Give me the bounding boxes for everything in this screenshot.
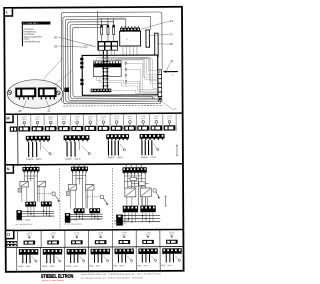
M col 2 header: [35, 117, 40, 121]
N sub 1 drop wires: [24, 173, 37, 202]
board left pin 3: [80, 66, 83, 69]
svg-text:1/N/PE ~ 230 V: 1/N/PE ~ 230 V: [26, 159, 42, 161]
O top divider 3: [64, 230, 66, 247]
O col 7 terminal block: [166, 240, 178, 244]
screw right: [56, 91, 60, 95]
component S2 (slim bar): [155, 33, 159, 56]
M group 4 clamp leader: [154, 144, 159, 151]
svg-text:Kabeleinführung: Kabeleinführung: [24, 40, 41, 43]
board terminal strip X1: [91, 89, 112, 93]
wire U1-to-board 4: [132, 46, 134, 55]
M group 1 comb: [26, 136, 50, 142]
N sub 2 output block 2: [89, 208, 100, 213]
M column divider 9: [135, 113, 137, 131]
O col 6 header: [145, 232, 151, 236]
detail ellipse: [7, 80, 62, 109]
O col 1 header: [27, 233, 33, 237]
N sub 3 mains connector: [116, 215, 123, 226]
wire U1-to-board 1: [122, 46, 124, 55]
O top divider 1: [16, 230, 18, 247]
signal wire 9: [97, 76, 158, 90]
enclosure dashed boundary: [63, 104, 163, 107]
svg-text:26: 26: [54, 35, 58, 39]
O col 4 wires: [95, 254, 102, 263]
M col 2 load symbol: [36, 121, 39, 126]
arrow at SE33: [90, 45, 95, 46]
M column divider 3: [56, 114, 58, 132]
O bottom divider 1: [16, 248, 18, 271]
N sub 1 contactor K1: [20, 181, 28, 187]
wire bus heavy 1: [102, 51, 104, 89]
O col 6 clamp leader: [151, 256, 156, 262]
inner module teeth: [95, 61, 119, 63]
N separator dashed 1: [59, 168, 61, 230]
element supply bus: [98, 17, 126, 19]
O col 3 wires: [71, 254, 78, 263]
M col 7 terminal block: [98, 126, 110, 131]
signal wire 1: [97, 57, 158, 71]
section label M: [5, 114, 13, 122]
svg-text:3/N/PE ~ 415 V: 3/N/PE ~ 415 V: [141, 157, 157, 159]
O col 7 load symbol: [171, 235, 173, 237]
M group 3 clamp leader: [120, 144, 125, 151]
N sub 2 indicator H1: [66, 192, 70, 196]
signal wire 3: [103, 59, 159, 79]
svg-text:2/PE ~ 220 V: 2/PE ~ 220 V: [89, 266, 101, 268]
M column divider 7: [109, 114, 111, 132]
O col 7 header: [169, 232, 175, 236]
detail terminal pins: [19, 97, 55, 100]
N sub 2 block-to-bus wires: [76, 213, 98, 219]
svg-text:1/N/PE ~ 240 V: 1/N/PE ~ 240 V: [65, 159, 81, 161]
control unit U1 body: [120, 31, 141, 46]
N sub 3 drop wires: [124, 173, 149, 206]
wire loop 5: [73, 25, 153, 100]
heating element E3: [112, 18, 115, 41]
svg-text:28: 28: [170, 42, 174, 46]
leader 28: [159, 43, 170, 46]
N sub 2 drop wires: [73, 173, 86, 209]
O middle divider: [6, 247, 184, 248]
M column divider 2: [43, 114, 45, 132]
O top divider 6: [135, 230, 137, 247]
O col 3 load symbol: [76, 236, 78, 238]
signal wire 11: [109, 58, 159, 82]
wire drop to relay block: [97, 11, 99, 41]
N sub 3 adjuster: [153, 189, 160, 199]
svg-text:mit Vorrangschaltung: mit Vorrangschaltung: [64, 223, 82, 226]
M col 6 terminal block: [85, 126, 97, 131]
N sub 2 supply buses: [65, 214, 103, 219]
M column divider 8: [122, 114, 124, 132]
M col 11 header: [154, 116, 159, 120]
N sub 2 contactor output wires: [70, 190, 92, 208]
M col 9 terminal block: [124, 126, 136, 131]
svg-text:O: O: [7, 232, 10, 237]
M col 5 terminal block: [71, 126, 83, 131]
svg-text:21: 21: [47, 108, 51, 112]
M col 5 header: [75, 116, 80, 120]
wire relay-to-board 4: [110, 50, 112, 55]
N sub 3 contactor K1: [125, 188, 136, 197]
M group 2 wires: [67, 142, 75, 157]
O col 5 connector bar: [114, 249, 133, 255]
svg-text:intern: intern: [24, 38, 30, 41]
M col 0 terminal block: [10, 126, 17, 131]
section label L: [4, 8, 12, 16]
M col 4 terminal block: [58, 126, 70, 131]
M col 10 header: [141, 116, 146, 120]
O col 3 clamp leader: [80, 256, 85, 262]
controller board outline: [82, 55, 158, 95]
svg-text:26: 26: [18, 109, 22, 113]
O col 1 terminal block: [24, 241, 36, 245]
board left pin 5: [80, 83, 83, 86]
inner module header bar: [94, 63, 122, 67]
N sub 1 supply comb: [22, 167, 39, 173]
M group 4 wires: [142, 140, 152, 155]
O top divider 4: [88, 230, 90, 247]
bus ladder ticks: [102, 58, 109, 86]
wire relay-to-board 1: [99, 51, 101, 56]
O col 3 connector bar: [67, 249, 86, 255]
O col 3 header: [74, 232, 80, 236]
N sub 1 mains connector: [16, 210, 21, 220]
N sub 1 mechanical link: [37, 193, 52, 195]
signal wire 13: [126, 69, 158, 99]
O col 1 clamp leader: [32, 257, 37, 263]
O col 5 terminal block: [119, 240, 131, 244]
N sub 3 output block 2: [140, 206, 155, 213]
N sub 2 mains connector: [65, 213, 70, 223]
board left pin 1: [80, 58, 83, 61]
M group 4 comb: [140, 134, 165, 140]
N sub 3 junction dots: [124, 215, 150, 223]
O top divider 7: [159, 230, 161, 247]
M column divider 11: [162, 113, 164, 131]
svg-text:N: N: [7, 166, 10, 171]
N sub 2 output block 1: [74, 208, 85, 213]
M group 3 wires: [108, 140, 118, 155]
N sub 3 output block 1: [123, 206, 138, 213]
svg-text:3/PE ~ 220 V: 3/PE ~ 220 V: [161, 265, 173, 267]
N sub 2 contactor K2: [86, 184, 94, 190]
M group 2 clamp leader: [81, 145, 90, 154]
M band left rail: [17, 114, 19, 166]
terminal strip X10: [158, 70, 162, 101]
cable clamp on loom: [64, 88, 69, 92]
O legend bar 1: [6, 241, 16, 243]
O col 1 wires: [23, 255, 30, 264]
M col 3 load symbol: [49, 121, 52, 126]
page frame: [4, 7, 183, 272]
O col 4 load symbol: [99, 236, 101, 238]
M group 1 extra wire: [40, 142, 42, 151]
M group 2 extra wire: [78, 141, 80, 150]
O bottom divider 5: [111, 247, 113, 270]
M col 5 load symbol: [76, 121, 79, 126]
O col 4 clamp leader: [104, 256, 109, 262]
M col 10 terminal block: [137, 125, 149, 130]
O bottom divider 7: [159, 247, 161, 270]
section label O: [6, 230, 14, 238]
N sub 3 supply buses: [116, 215, 160, 221]
svg-text:21: 21: [170, 19, 174, 23]
N sub 1 supply buses: [16, 211, 54, 216]
M group 1 wires: [29, 142, 37, 157]
signal wire 4: [112, 58, 159, 84]
wire relay-to-board 2: [103, 51, 105, 56]
svg-text:Durchfluss: Durchfluss: [24, 33, 36, 36]
O col 3 terminal block: [71, 240, 83, 244]
O col 2 clamp leader: [56, 256, 61, 262]
detail view line upper: [43, 58, 64, 80]
N sub 1 output block 2: [41, 202, 52, 207]
inner module M1: [94, 61, 122, 77]
leader 27: [150, 34, 170, 35]
M col 11 terminal block: [151, 125, 163, 130]
section divider M: [5, 113, 183, 114]
O col 5 wires: [118, 254, 125, 263]
section label N: [5, 165, 13, 173]
M col 3 terminal block: [45, 126, 57, 131]
leader 29: [167, 63, 170, 70]
svg-text:STIEBEL ELTRON: STIEBEL ELTRON: [41, 274, 74, 280]
O col 6 terminal block: [142, 240, 154, 244]
connector X2 comb: [120, 26, 140, 31]
svg-text:1/N/PE ~ 230 V: 1/N/PE ~ 230 V: [42, 266, 56, 268]
pin P4: [125, 80, 127, 82]
N sub 1 output block 1: [25, 202, 36, 207]
N sub 1 contactor output wires: [22, 187, 44, 202]
leader line 26 upper: [58, 37, 91, 46]
detail view line lower: [55, 70, 73, 84]
pin P2: [125, 68, 127, 70]
O col 7 clamp leader: [175, 256, 180, 262]
M group 1 clamp leader: [42, 146, 51, 155]
pin column line: [125, 60, 127, 86]
signal wire 7: [126, 81, 158, 97]
leader to label 30: [162, 102, 174, 110]
N sub 2 junction dots: [76, 214, 99, 220]
N sub 1 junction dots: [27, 211, 50, 217]
M col 7 header: [101, 116, 106, 120]
svg-text:3/N/PE ~ 400 V: 3/N/PE ~ 400 V: [64, 219, 79, 221]
svg-text:1/N/PE ~ 240 V: 1/N/PE ~ 240 V: [65, 266, 79, 268]
N sub 3 contactor K2: [140, 188, 151, 197]
O col 7 wires: [166, 254, 173, 263]
M column divider 12: [175, 113, 177, 131]
board left pin 2: [80, 62, 83, 65]
M col 6 header: [88, 116, 93, 120]
O col 5 clamp leader: [127, 256, 132, 262]
M col 8 header: [114, 116, 119, 120]
screw left: [8, 90, 12, 94]
M col 12 terminal block: [164, 125, 176, 130]
O col 5 load symbol: [123, 236, 125, 238]
O bottom divider 2: [40, 247, 42, 270]
wire bus heavy 2: [106, 51, 108, 89]
M col 10 load symbol: [142, 121, 145, 126]
N sub 2 feed stubs: [74, 164, 84, 166]
wire relay-to-board 5: [114, 50, 116, 55]
wire U1-to-board 2: [125, 46, 127, 55]
svg-text:3/N/PE ~ 400 V: 3/N/PE ~ 400 V: [108, 157, 124, 159]
M col 2 terminal block: [32, 126, 44, 131]
N scale mark: [164, 196, 166, 206]
N sub 2 adjuster: [100, 195, 108, 205]
O col 6 connector bar: [138, 248, 157, 254]
signal wire 8: [111, 90, 158, 93]
svg-text:mit Lastabwurfrelais: mit Lastabwurfrelais: [16, 223, 33, 226]
component S1 (slim bar): [146, 30, 150, 47]
section divider N: [5, 164, 183, 165]
N sub 1 adjuster: [52, 192, 60, 202]
O col 2 terminal block: [47, 240, 59, 244]
M group 2 comb: [64, 135, 90, 141]
O col 1 load symbol: [28, 236, 30, 238]
M col 9 load symbol: [129, 121, 132, 126]
signal wire 2: [100, 58, 159, 75]
heating element E1: [100, 18, 103, 41]
N sub 1 contactor K2: [37, 181, 45, 187]
N sub 2 supply comb: [71, 167, 88, 173]
leader line 26 lower: [58, 46, 87, 48]
relay contact block K1: [97, 41, 118, 51]
O col 2 header: [50, 233, 56, 237]
M scale mark: [176, 145, 178, 155]
O bottom divider 6: [135, 247, 137, 270]
svg-text:1/N/PE ~ 220 V: 1/N/PE ~ 220 V: [18, 266, 32, 268]
detail leader 26: [22, 101, 26, 110]
O bottom divider 4: [87, 247, 89, 270]
signal wire 6: [126, 63, 158, 92]
leader 21: [140, 21, 169, 29]
signal wire 5: [118, 59, 159, 89]
wire loop 1: [63, 16, 161, 104]
M col 8 load symbol: [115, 121, 118, 126]
N sub 3 block-to-bus wires: [125, 212, 153, 222]
detail terminal block left: [15, 88, 36, 98]
detail leader 21: [46, 101, 49, 109]
M col 7 load symbol: [102, 121, 105, 126]
N sub 3 supply comb: [122, 167, 146, 174]
N sub 2 mechanical link: [86, 196, 101, 198]
N sub 1 indicator H1: [18, 188, 22, 192]
O col 2 connector bar: [43, 249, 62, 255]
M column divider 4: [69, 114, 71, 132]
signal wire 10: [100, 76, 158, 91]
wire U1-to-board 3: [129, 46, 131, 55]
M col 11 load symbol: [155, 121, 158, 126]
svg-text:www.stiebel-eltron.de · info@s: www.stiebel-eltron.de · info@stiebel-elt…: [81, 272, 161, 275]
N sub 1 block-to-bus wires: [28, 206, 50, 216]
O col 4 terminal block: [95, 240, 107, 244]
O bottom divider 3: [63, 247, 65, 270]
M column divider 1: [30, 114, 32, 132]
svg-text:26: 26: [54, 44, 58, 48]
wire loop 3: [68, 21, 157, 100]
O col 7 connector bar: [162, 248, 181, 254]
wire loop 4: [70, 24, 155, 100]
O legend bar 2: [6, 244, 16, 246]
O col 5 header: [122, 232, 128, 236]
board left pin 4: [80, 79, 83, 82]
arrow to terminal (29): [163, 70, 178, 72]
O col 2 load symbol: [52, 236, 54, 238]
M col 9 header: [127, 116, 132, 120]
signal wire 12: [115, 60, 159, 77]
pin P1: [125, 62, 127, 64]
M col 1 header: [22, 117, 27, 121]
svg-text:2/PE ~ 240 V: 2/PE ~ 240 V: [137, 265, 149, 267]
svg-text:1x: 1x: [172, 75, 174, 77]
pin P3: [125, 74, 127, 76]
N sub 1 feed stubs: [26, 165, 36, 167]
section divider O: [6, 229, 184, 230]
svg-text:2/PE ~ 230 V: 2/PE ~ 230 V: [113, 265, 125, 267]
M col 12 header: [167, 116, 172, 120]
M col 1 terminal block: [19, 126, 31, 131]
O col 6 wires: [142, 254, 149, 263]
svg-text:1 x 21 kW 400 V ~: 1 x 21 kW 400 V ~: [23, 23, 40, 25]
O col 1 connector bar: [19, 249, 38, 255]
O col 6 load symbol: [147, 236, 149, 238]
wire loop 0 (outer): [61, 12, 162, 102]
M column divider 10: [149, 113, 151, 131]
O top divider 5: [111, 230, 113, 247]
M col 6 load symbol: [89, 121, 92, 126]
heating element E2: [107, 18, 110, 41]
N sub 3 contactor output wires: [127, 197, 148, 206]
O col 4 header: [98, 232, 104, 236]
svg-text:1/N/PE ~ 230 V: 1/N/PE ~ 230 V: [16, 220, 31, 222]
legend left bar: [22, 22, 23, 46]
svg-text:27: 27: [170, 32, 174, 36]
detail terminal block right: [38, 87, 57, 97]
wire U1-to-board 5: [136, 46, 138, 55]
N sub 2 contactor K1: [68, 185, 76, 191]
M col 4 load symbol: [63, 121, 66, 126]
wire relay-to-board 3: [106, 51, 108, 56]
legend header bar: [22, 21, 51, 24]
M col 12 load symbol: [168, 120, 171, 125]
M col 8 terminal block: [111, 126, 123, 131]
M group 3 comb: [106, 134, 129, 140]
M col 1 load symbol: [23, 121, 26, 126]
M col 3 header: [48, 116, 53, 120]
O col 2 wires: [47, 255, 54, 264]
N sub 3 feed stubs: [126, 164, 141, 167]
M column divider 6: [96, 114, 98, 132]
N separator dashed 2: [111, 168, 113, 230]
svg-text:Wärme ist unser Element: Wärme ist unser Element: [42, 279, 65, 282]
O col 4 connector bar: [91, 249, 110, 255]
M column divider 5: [83, 114, 85, 132]
wire loop 2: [65, 19, 159, 102]
svg-text:29: 29: [170, 59, 174, 63]
M col 4 header: [61, 116, 66, 120]
O top divider 2: [40, 230, 42, 247]
svg-text:Dr.-Stiebel-Straße 33 · 37603: Dr.-Stiebel-Straße 33 · 37603 Holzminden…: [81, 276, 143, 279]
svg-text:3/N/PE ~ 415 V: 3/N/PE ~ 415 V: [114, 223, 128, 225]
